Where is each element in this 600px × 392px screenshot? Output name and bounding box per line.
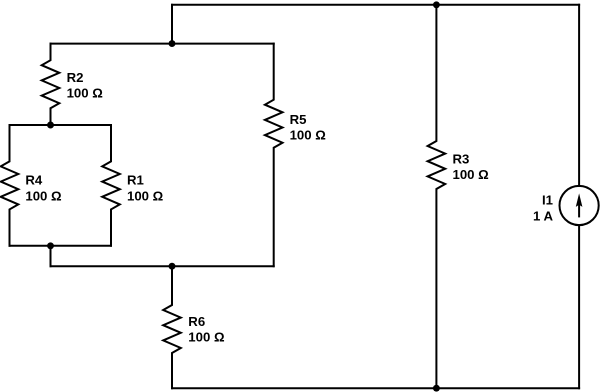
resistor R5 [265, 44, 283, 267]
svg-text:100 Ω: 100 Ω [453, 167, 490, 182]
current source I1 arrow [576, 193, 583, 217]
resistor R4 [1, 125, 19, 246]
svg-text:R2: R2 [67, 70, 84, 85]
wire parallel-block top rail [10, 124, 112, 126]
wire right column lower [578, 225, 580, 388]
svg-text:100 Ω: 100 Ω [290, 128, 327, 143]
wire bottom rail [172, 387, 579, 389]
svg-text:R5: R5 [290, 112, 307, 127]
node dot: parallel bottom rail / stub [47, 242, 54, 249]
resistor R2 [42, 44, 60, 125]
svg-text:100 Ω: 100 Ω [188, 330, 225, 345]
current source I1 circle [560, 186, 599, 225]
wire top rail [172, 4, 579, 6]
svg-text:R4: R4 [25, 173, 43, 188]
wire upper-left rail [51, 43, 274, 45]
wire left drop from top rail [171, 5, 173, 44]
svg-text:I1: I1 [542, 193, 553, 208]
wire stub below parallel block [50, 246, 52, 266]
node dot: top rail / R3 [433, 1, 440, 8]
svg-text:1 A: 1 A [533, 209, 554, 224]
resistor R6 [163, 266, 181, 388]
wire right column upper [578, 5, 580, 186]
junction node dots [47, 1, 440, 391]
svg-text:R3: R3 [453, 151, 470, 166]
resistor R3 [428, 5, 446, 388]
node dot: bottom rail / R3 [433, 385, 440, 392]
node dot: R2 bottom / parallel top rail [47, 122, 54, 129]
node dot: upper-left rail / left drop [169, 40, 176, 47]
svg-text:R6: R6 [188, 314, 205, 329]
wire mid rail [51, 265, 274, 267]
svg-text:100 Ω: 100 Ω [127, 188, 164, 203]
node dot: mid rail / R6 [169, 263, 176, 270]
svg-text:100 Ω: 100 Ω [25, 188, 62, 203]
svg-text:R1: R1 [127, 173, 144, 188]
wire parallel-block bottom rail [10, 245, 112, 247]
resistor R1 [102, 125, 120, 246]
svg-text:100 Ω: 100 Ω [67, 86, 104, 101]
